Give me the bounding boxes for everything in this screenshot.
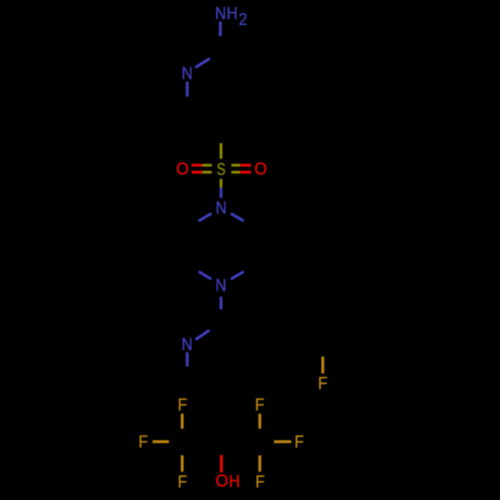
svg-text:N: N bbox=[215, 4, 226, 23]
bond Npip1-C right bbox=[231, 213, 244, 221]
bond S-N piperazine, nitrogen half bbox=[220, 188, 223, 198]
amine NH2 label bbox=[215, 4, 247, 29]
svg-text:F: F bbox=[139, 433, 148, 452]
bond CF3R outer bbox=[274, 440, 291, 443]
bond C4-S (sulfur half) bbox=[220, 143, 223, 159]
svg-text:F: F bbox=[295, 433, 304, 452]
double bond S=O left, line 1 bbox=[192, 164, 203, 167]
svg-text:F: F bbox=[178, 473, 187, 492]
bond CF3L top bbox=[181, 414, 184, 429]
svg-text:N: N bbox=[216, 199, 227, 218]
svg-text:F: F bbox=[255, 473, 264, 492]
bond Nlow-C2 bbox=[195, 330, 209, 339]
bond Nlow-C6 bbox=[186, 352, 189, 366]
bond F-aryl (fluorine half) bbox=[321, 357, 324, 374]
svg-text:2: 2 bbox=[239, 10, 248, 29]
bond N1-C2 bbox=[186, 82, 189, 97]
svg-text:H: H bbox=[227, 4, 238, 23]
svg-text:N: N bbox=[181, 335, 192, 354]
svg-text:O: O bbox=[216, 471, 229, 491]
bond NH2-C6 bbox=[219, 22, 222, 37]
bond Npip4-C left bbox=[199, 272, 212, 280]
bond CF3L outer bbox=[153, 440, 169, 443]
bond Npip1-C left bbox=[199, 213, 212, 221]
bond CF3R top bbox=[258, 414, 261, 429]
double bond S=O left, line 2 bbox=[192, 171, 203, 174]
svg-text:S: S bbox=[217, 160, 226, 179]
svg-text:O: O bbox=[176, 159, 189, 179]
double bond S=O right, line 2 bbox=[231, 171, 240, 174]
bond CF3R bottom bbox=[258, 455, 261, 471]
svg-text:F: F bbox=[255, 396, 264, 415]
svg-text:O: O bbox=[254, 159, 267, 179]
bond Npip4-C2 pyridine bbox=[220, 297, 223, 310]
svg-text:N: N bbox=[215, 276, 226, 295]
svg-text:H: H bbox=[229, 472, 240, 491]
svg-text:F: F bbox=[178, 396, 187, 415]
svg-text:N: N bbox=[182, 64, 193, 83]
svg-text:F: F bbox=[318, 374, 327, 393]
double bond S=O right, line 1 bbox=[231, 164, 240, 167]
bond CF3L bottom bbox=[181, 455, 184, 471]
bond C-OH (oxygen half) bbox=[220, 455, 223, 473]
bond N1-C6 bbox=[195, 59, 210, 68]
bond Npip4-C right bbox=[231, 272, 244, 280]
bond S-N piperazine, sulfur half bbox=[220, 179, 223, 188]
